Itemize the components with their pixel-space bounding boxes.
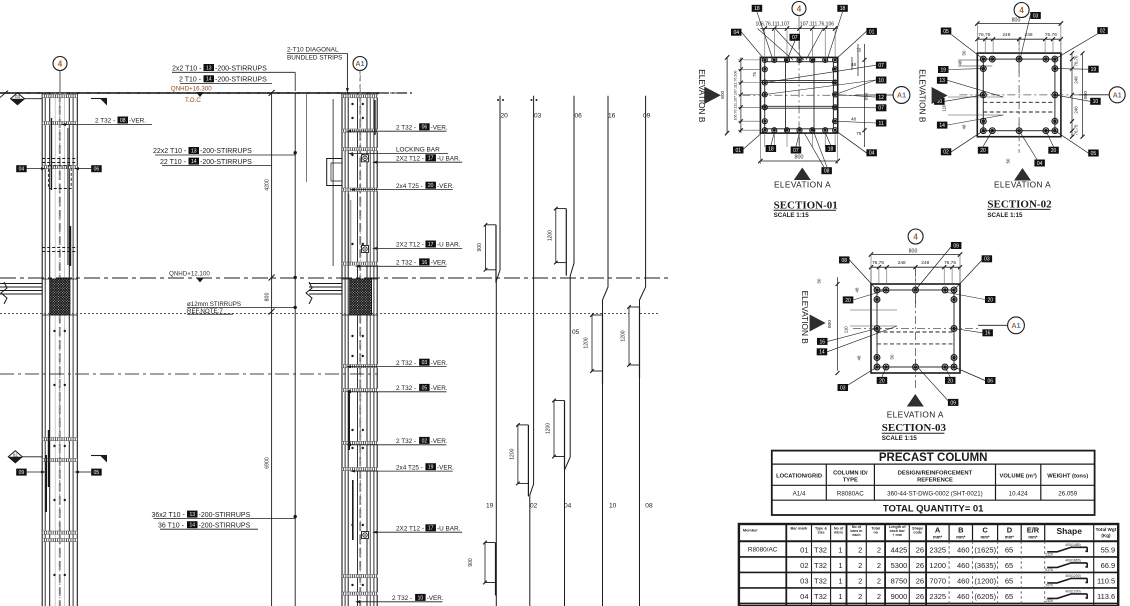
svg-text:09: 09 [19,470,25,476]
svg-text:75: 75 [856,48,862,53]
svg-text:19: 19 [428,465,434,471]
svg-text:04: 04 [19,167,25,173]
svg-text:248: 248 [898,260,906,266]
svg-text:22x2 T10 -: 22x2 T10 - [153,148,187,155]
svg-text:20: 20 [501,113,509,120]
svg-text:4: 4 [58,59,63,68]
svg-text:03: 03 [1033,13,1039,19]
svg-text:05: 05 [1091,151,1097,157]
svg-text:18: 18 [754,6,760,12]
svg-text:R8080/AC: R8080/AC [748,547,778,554]
svg-text:10: 10 [878,78,884,84]
svg-text:Total Wgt: Total Wgt [1096,527,1117,532]
svg-text:08: 08 [824,169,830,175]
svg-text:14: 14 [939,123,945,129]
svg-text:Member: Member [743,528,758,533]
svg-text:-200-STIRRUPS: -200-STIRRUPS [215,77,267,84]
svg-text:75: 75 [752,72,757,77]
svg-text:1200: 1200 [547,230,553,241]
svg-text:08: 08 [120,118,126,124]
svg-text:04: 04 [869,151,875,157]
svg-text:65: 65 [1005,561,1013,570]
svg-text:QNHD+12.100: QNHD+12.100 [169,271,210,278]
svg-text:05: 05 [94,470,100,476]
svg-text:10: 10 [609,503,617,510]
svg-text:2 T32 -: 2 T32 - [396,385,416,392]
svg-text:-VER.: -VER. [431,438,448,445]
svg-text:07: 07 [878,106,884,112]
svg-text:-U BAR.: -U BAR. [437,242,461,249]
svg-text:4200: 4200 [264,179,270,191]
svg-text:-U BAR.: -U BAR. [437,525,461,532]
svg-text:A1: A1 [356,61,365,68]
svg-text:mm*: mm* [933,534,942,539]
svg-text:5300: 5300 [891,561,908,570]
svg-text:08: 08 [841,258,847,264]
svg-text:76,76: 76,76 [978,32,990,38]
svg-text:-U BAR.: -U BAR. [437,155,461,162]
svg-text:800: 800 [909,248,918,254]
svg-text:-VER.: -VER. [437,464,454,471]
svg-text:-VER.: -VER. [427,595,444,602]
svg-text:13: 13 [939,78,945,84]
svg-text:36 T10 -: 36 T10 - [158,522,185,529]
svg-text:T32: T32 [814,577,827,586]
svg-text:2325: 2325 [1045,599,1053,603]
svg-text:WEIGHT (tons): WEIGHT (tons) [1047,474,1088,480]
svg-text:20: 20 [428,183,434,189]
svg-text:400(1200): 400(1200) [1065,574,1080,578]
svg-text:16: 16 [608,113,616,120]
svg-text:04: 04 [733,30,739,36]
svg-text:36x2 T10 -: 36x2 T10 - [152,512,186,519]
svg-text:T.O.C: T.O.C [185,97,201,104]
svg-text:A1: A1 [1012,323,1021,330]
svg-text:2 T32 -: 2 T32 - [396,438,416,445]
svg-text:BUNDLED STRIPS: BUNDLED STRIPS [287,55,342,62]
svg-text:6900: 6900 [264,457,270,469]
svg-text:1200: 1200 [621,330,627,341]
svg-text:ELEVATION B: ELEVATION B [800,291,810,345]
svg-text:2: 2 [858,561,862,570]
svg-text:2x4 T25 -: 2x4 T25 - [396,183,423,190]
svg-text:2: 2 [877,561,881,570]
svg-text:800: 800 [795,155,804,161]
svg-text:B: B [958,526,964,535]
svg-text:size: size [818,531,825,535]
svg-text:14: 14 [191,159,197,165]
svg-text:11: 11 [879,121,884,127]
svg-text:03: 03 [422,360,428,366]
svg-text:22 T10 -: 22 T10 - [160,159,187,166]
svg-text:COLUMN ID/: COLUMN ID/ [833,471,868,477]
svg-text:code: code [913,531,922,535]
svg-text:48: 48 [851,62,857,67]
svg-text:800: 800 [827,320,833,328]
svg-text:A: A [935,526,941,535]
svg-text:SCALE 1:15: SCALE 1:15 [882,435,918,442]
svg-text:48: 48 [958,60,963,65]
svg-text:R8080AC: R8080AC [837,490,864,497]
svg-text:2 T32 -: 2 T32 - [396,360,416,367]
svg-text:5176: 5176 [1045,568,1053,572]
svg-text:02: 02 [13,452,18,457]
svg-text:01: 01 [869,29,875,35]
svg-text:02: 02 [800,561,808,570]
svg-text:4425: 4425 [891,546,908,555]
svg-text:† mm: † mm [892,533,902,537]
svg-text:9000: 9000 [891,592,908,601]
svg-text:-VER.: -VER. [431,360,448,367]
svg-text:20: 20 [879,378,885,384]
svg-text:17: 17 [428,242,434,248]
svg-text:ø12mm STIRRUPS: ø12mm STIRRUPS [187,301,241,308]
svg-text:13: 13 [191,148,197,154]
svg-text:20: 20 [987,297,993,303]
svg-text:-200-STIRRUPS: -200-STIRRUPS [199,512,251,519]
svg-text:18: 18 [828,146,834,152]
svg-text:19: 19 [486,503,494,510]
svg-text:12: 12 [878,95,884,101]
svg-text:08: 08 [645,503,653,510]
svg-text:LOCATION/GRID: LOCATION/GRID [776,474,822,480]
svg-text:110: 110 [942,104,947,112]
svg-text:65: 65 [1005,546,1013,555]
svg-text:04: 04 [800,592,808,601]
svg-text:50: 50 [816,278,821,283]
svg-text:-VER.: -VER. [437,183,454,190]
svg-text:-200-STIRRUPS: -200-STIRRUPS [200,148,252,155]
svg-text:VOLUME (m³): VOLUME (m³) [999,473,1036,480]
svg-text:460: 460 [957,561,970,570]
svg-text:2 T32 -: 2 T32 - [396,124,416,131]
svg-text:ELEVATION A: ELEVATION A [774,180,831,190]
svg-text:SCALE 1:15: SCALE 1:15 [987,212,1023,219]
svg-text:106,76,111,107,107,111,76,106: 106,76,111,107,107,111,76,106 [733,71,737,121]
svg-text:2x2 T10 -: 2x2 T10 - [172,65,202,72]
svg-text:SECTION-03: SECTION-03 [882,422,947,434]
svg-text:01: 01 [800,546,808,555]
svg-text:900: 900 [468,558,474,567]
svg-text:03: 03 [15,94,20,99]
svg-text:460: 460 [957,577,970,586]
svg-text:66.9: 66.9 [1101,561,1116,570]
svg-text:55.9: 55.9 [1101,546,1116,555]
svg-text:(Kg): (Kg) [1101,533,1111,538]
svg-text:no: no [873,531,878,535]
svg-text:800: 800 [720,90,726,98]
svg-text:A1/4: A1/4 [793,490,806,497]
svg-text:248: 248 [1074,106,1079,114]
svg-text:248: 248 [1002,32,1010,38]
svg-text:110: 110 [844,326,849,334]
svg-text:1200: 1200 [584,337,590,348]
svg-text:07: 07 [792,35,798,41]
svg-text:1200: 1200 [929,561,946,570]
svg-text:48: 48 [962,124,967,129]
svg-text:16: 16 [985,331,991,337]
svg-text:26: 26 [916,577,924,586]
svg-text:2-T10 DIAGONAL: 2-T10 DIAGONAL [287,47,339,54]
svg-text:(6205): (6205) [974,592,996,601]
svg-text:248: 248 [921,260,929,266]
svg-text:460: 460 [957,546,970,555]
svg-text:4: 4 [1019,6,1024,15]
svg-text:26.059: 26.059 [1058,490,1077,497]
svg-text:PRECAST COLUMN: PRECAST COLUMN [879,452,988,464]
svg-text:14: 14 [206,77,212,83]
svg-text:13: 13 [189,512,195,518]
svg-text:DESIGN/REINFORCEMENT: DESIGN/REINFORCEMENT [898,471,973,477]
svg-text:8750: 8750 [891,577,908,586]
svg-text:-200-STIRRUPS: -200-STIRRUPS [215,65,267,72]
svg-text:65: 65 [1005,592,1013,601]
svg-text:02: 02 [422,438,428,444]
svg-text:-200-STIRRUPS: -200-STIRRUPS [199,522,251,529]
svg-text:QNHD+16.300: QNHD+16.300 [171,86,212,93]
svg-text:ELEVATION A: ELEVATION A [887,409,944,419]
svg-text:50: 50 [890,354,895,359]
svg-text:-VER.: -VER. [431,124,448,131]
svg-text:18: 18 [840,6,846,12]
svg-text:05: 05 [422,385,428,391]
svg-text:48: 48 [851,117,857,122]
svg-text:19: 19 [1091,67,1097,73]
svg-text:09: 09 [953,243,959,249]
svg-text:07: 07 [793,148,799,154]
svg-text:SECTION-01: SECTION-01 [774,199,838,211]
svg-text:18: 18 [768,146,774,152]
svg-text:2X2 T12 -: 2X2 T12 - [396,242,424,249]
svg-text:7070: 7070 [929,577,946,586]
svg-text:19: 19 [940,67,946,73]
svg-text:Bar mark: Bar mark [790,526,808,531]
svg-text:50: 50 [962,50,967,55]
svg-text:mm*: mm* [1005,534,1014,539]
svg-text:50: 50 [1006,158,1011,163]
svg-text:(1200): (1200) [974,577,996,586]
svg-text:20: 20 [1051,148,1057,154]
svg-text:1: 1 [838,561,842,570]
svg-text:04: 04 [564,503,572,510]
svg-text:10: 10 [418,595,424,601]
svg-text:05: 05 [572,329,580,336]
svg-text:ELEVATION A: ELEVATION A [994,180,1051,190]
svg-text:107,111,76,106: 107,111,76,106 [800,22,834,28]
svg-text:110.5: 110.5 [1097,577,1115,586]
svg-text:76,76: 76,76 [1074,124,1079,136]
svg-text:2: 2 [877,546,881,555]
svg-text:400(1200): 400(1200) [1065,589,1080,593]
svg-text:02: 02 [943,150,949,156]
svg-text:76,76: 76,76 [1045,32,1057,38]
svg-text:26: 26 [916,561,924,570]
svg-text:06: 06 [94,167,100,173]
svg-text:26: 26 [916,592,924,601]
svg-text:04: 04 [1037,161,1043,167]
svg-text:2: 2 [877,592,881,601]
svg-text:A1: A1 [1113,92,1122,99]
svg-text:460: 460 [957,592,970,601]
svg-text:SECTION-02: SECTION-02 [987,198,1052,210]
svg-text:Shape: Shape [1056,526,1082,536]
svg-text:400(1485): 400(1485) [1065,543,1080,547]
svg-text:14: 14 [189,523,195,529]
svg-text:05: 05 [943,29,949,35]
svg-text:07: 07 [878,63,884,69]
svg-text:76,76: 76,76 [1074,55,1079,67]
svg-text:-VER.: -VER. [431,260,448,267]
svg-text:ELEVATION B: ELEVATION B [918,69,928,123]
svg-text:2: 2 [858,546,862,555]
svg-text:mm*: mm* [956,534,965,539]
svg-text:65: 65 [1005,577,1013,586]
svg-text:02: 02 [1100,29,1106,35]
svg-text:mbrs: mbrs [834,531,843,535]
svg-text:2X2 T12 -: 2X2 T12 - [396,155,424,162]
svg-text:76,76: 76,76 [872,260,884,266]
svg-text:2325: 2325 [929,546,946,555]
svg-text:2X2 T12 -: 2X2 T12 - [396,525,424,532]
svg-text:1: 1 [838,592,842,601]
svg-text:T32: T32 [814,561,827,570]
svg-text:17: 17 [428,156,434,162]
svg-text:2 T32 -: 2 T32 - [396,260,416,267]
svg-text:48: 48 [855,287,860,292]
svg-text:SCALE 1:15: SCALE 1:15 [774,212,810,219]
svg-text:2: 2 [877,577,881,586]
svg-text:D: D [1007,526,1013,535]
svg-text:7070: 7070 [1045,584,1053,588]
svg-text:-VER.: -VER. [129,118,146,125]
svg-text:48: 48 [857,355,862,360]
svg-text:20: 20 [845,298,851,304]
svg-text:900: 900 [477,243,483,252]
svg-text:T32: T32 [814,592,827,601]
svg-text:06: 06 [422,125,428,131]
svg-text:1: 1 [838,577,842,586]
svg-text:10: 10 [1093,99,1099,105]
svg-text:03: 03 [800,577,808,586]
svg-text:TOTAL QUANTITY= 01: TOTAL QUANTITY= 01 [883,503,984,514]
svg-text:ELEVATION B: ELEVATION B [697,69,707,123]
svg-text:T32: T32 [814,546,827,555]
svg-text:TYPE: TYPE [843,478,858,484]
svg-text:2: 2 [858,592,862,601]
svg-text:14: 14 [819,350,825,356]
svg-text:16: 16 [422,260,428,266]
svg-text:03: 03 [840,385,846,391]
svg-text:E/R: E/R [1027,526,1040,535]
svg-text:(1625): (1625) [974,546,996,555]
svg-text:26: 26 [916,546,924,555]
svg-text:113.6: 113.6 [1097,592,1115,601]
svg-text:each: each [852,533,861,537]
svg-text:mm*: mm* [1028,534,1037,539]
svg-text:16: 16 [819,339,825,345]
svg-text:02: 02 [530,503,538,510]
svg-text:20: 20 [980,148,986,154]
svg-text:800: 800 [1012,17,1021,23]
svg-text:13: 13 [206,65,212,71]
svg-text:01: 01 [735,148,741,154]
svg-text:06: 06 [987,378,993,384]
svg-text:2x4 T25 -: 2x4 T25 - [396,464,423,471]
svg-text:360-44-ST-DWG-0002 (SHT-0021): 360-44-ST-DWG-0002 (SHT-0021) [887,490,983,497]
svg-text:2 T32 -: 2 T32 - [95,118,115,125]
svg-text:03: 03 [984,257,990,263]
svg-text:REFERENCE: REFERENCE [917,478,953,484]
svg-text:4: 4 [797,4,802,13]
svg-text:1200: 1200 [509,448,515,459]
svg-text:1200: 1200 [546,423,552,434]
svg-text:76,76: 76,76 [944,260,956,266]
svg-text:-VER.: -VER. [431,385,448,392]
svg-text:-200-STIRRUPS: -200-STIRRUPS [200,159,252,166]
svg-text:2 T32 -: 2 T32 - [392,595,412,602]
svg-text:LOCKING BAR: LOCKING BAR [396,147,440,154]
svg-text:(3635): (3635) [974,561,996,570]
svg-text:03: 03 [534,113,542,120]
svg-text:248: 248 [1074,76,1079,84]
svg-text:75: 75 [856,131,862,136]
svg-text:mm*: mm* [981,534,990,539]
svg-text:2325: 2325 [929,592,946,601]
svg-text:1: 1 [838,546,842,555]
svg-text:4: 4 [913,232,918,241]
svg-text:2: 2 [858,577,862,586]
svg-text:09: 09 [643,113,651,120]
svg-text:C: C [982,526,988,535]
svg-text:2325: 2325 [1045,552,1053,556]
svg-text:2 T10 -: 2 T10 - [179,77,202,84]
svg-text:17: 17 [428,526,434,532]
svg-text:400(1865): 400(1865) [1065,558,1080,562]
svg-text:A1: A1 [897,93,906,100]
svg-text:10.424: 10.424 [1009,490,1028,497]
svg-text:09: 09 [950,400,956,406]
svg-text:20: 20 [947,378,953,384]
svg-text:06: 06 [575,113,583,120]
svg-text:800: 800 [264,293,270,302]
